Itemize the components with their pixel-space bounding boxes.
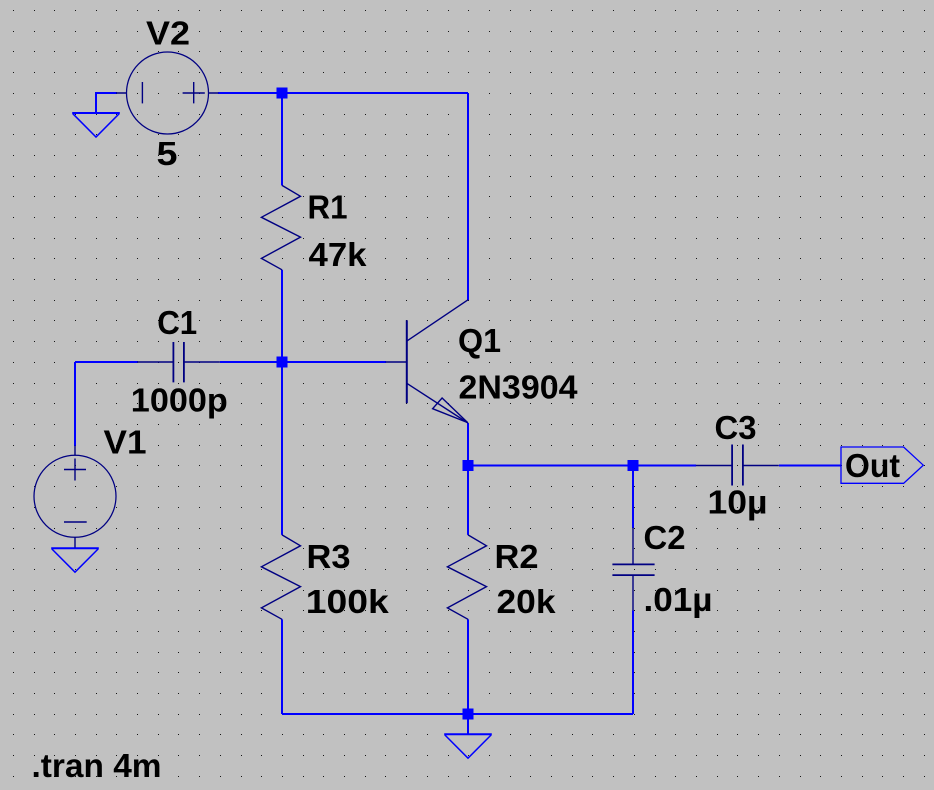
svg-text:.01µ: .01µ bbox=[644, 581, 713, 618]
transistor Q1 base bar bbox=[406, 320, 408, 403]
wire base row right (C1 lead to Q1 base lead) bbox=[220, 361, 386, 363]
wire R3 top lead bbox=[281, 362, 283, 535]
V2 lead stubs bbox=[116, 92, 219, 94]
svg-text:R3: R3 bbox=[307, 538, 351, 575]
node bottom rail bbox=[463, 709, 474, 720]
node base row bbox=[277, 357, 288, 368]
resistor R3 bbox=[261, 535, 300, 619]
node C2 top bbox=[628, 460, 639, 471]
svg-text:R2: R2 bbox=[495, 538, 539, 575]
svg-text:C3: C3 bbox=[715, 409, 757, 446]
svg-text:1000p: 1000p bbox=[131, 382, 228, 419]
capacitor C1 plates bbox=[173, 342, 184, 382]
resistor R1 bbox=[261, 185, 300, 269]
svg-text:Q1: Q1 bbox=[458, 322, 501, 359]
wire R1 bottom lead bbox=[281, 270, 283, 362]
wire out row node to C3 lead bbox=[468, 465, 696, 467]
node top rail bbox=[277, 88, 288, 99]
svg-text:V1: V1 bbox=[104, 424, 147, 461]
wire V2 ground jog bbox=[96, 93, 117, 113]
capacitor C3 leads bbox=[696, 465, 779, 467]
V2 plus mark bbox=[183, 82, 205, 103]
wire emitter to node bbox=[467, 423, 469, 466]
svg-text:20k: 20k bbox=[497, 583, 557, 620]
transistor Q1 emitter diagonal bbox=[407, 383, 468, 423]
resistor R2 bbox=[447, 535, 486, 619]
wire collector vertical bbox=[467, 93, 469, 300]
capacitor C2 leads bbox=[632, 528, 634, 611]
capacitor C3 plates bbox=[732, 445, 743, 486]
svg-text:2N3904: 2N3904 bbox=[459, 369, 579, 406]
svg-text:V2: V2 bbox=[146, 14, 190, 51]
ground bottom bbox=[444, 733, 492, 735]
transistor Q1 collector diagonal bbox=[407, 300, 468, 341]
capacitor C2 plates bbox=[612, 564, 654, 575]
V1 lead stubs bbox=[74, 446, 76, 548]
wire bottom ground stem bbox=[467, 714, 469, 734]
capacitor C1 leads bbox=[137, 361, 220, 363]
voltage source V1 circle bbox=[34, 455, 116, 537]
ground for V2 bbox=[72, 112, 120, 114]
svg-text:100k: 100k bbox=[306, 583, 390, 620]
wire R1 top lead bbox=[281, 93, 283, 185]
svg-text:R1: R1 bbox=[308, 189, 348, 226]
wire C2 bottom lead bbox=[632, 611, 634, 715]
wire R2 bottom lead bbox=[467, 619, 469, 714]
wire C3 lead to port bbox=[779, 465, 841, 467]
svg-text:10µ: 10µ bbox=[708, 484, 768, 521]
svg-text:Out: Out bbox=[845, 447, 900, 484]
svg-text:C1: C1 bbox=[157, 304, 197, 341]
svg-text:C2: C2 bbox=[644, 519, 686, 556]
wire base row left (V1 to C1 lead) bbox=[75, 361, 138, 363]
wire V1 top lead bbox=[74, 362, 76, 446]
wire R3 bottom lead bbox=[281, 619, 283, 714]
V1 minus mark bbox=[64, 521, 87, 523]
wire C2 top lead bbox=[632, 466, 634, 529]
wire top rail bbox=[218, 92, 468, 94]
svg-text:.tran 4m: .tran 4m bbox=[32, 747, 162, 784]
transistor Q1 emitter arrow bbox=[433, 398, 468, 423]
wire bottom rail bbox=[282, 713, 633, 715]
transistor Q1 base lead bbox=[386, 361, 407, 363]
V2 minus mark bbox=[141, 82, 143, 103]
voltage source V2 circle bbox=[127, 52, 209, 134]
node emitter out bbox=[463, 460, 474, 471]
wire R2 top lead bbox=[467, 466, 469, 535]
svg-text:47k: 47k bbox=[309, 236, 368, 273]
output port Out bbox=[841, 447, 923, 483]
svg-text:5: 5 bbox=[157, 135, 178, 172]
ground for V1 bbox=[51, 547, 99, 549]
V1 plus mark bbox=[64, 459, 86, 481]
